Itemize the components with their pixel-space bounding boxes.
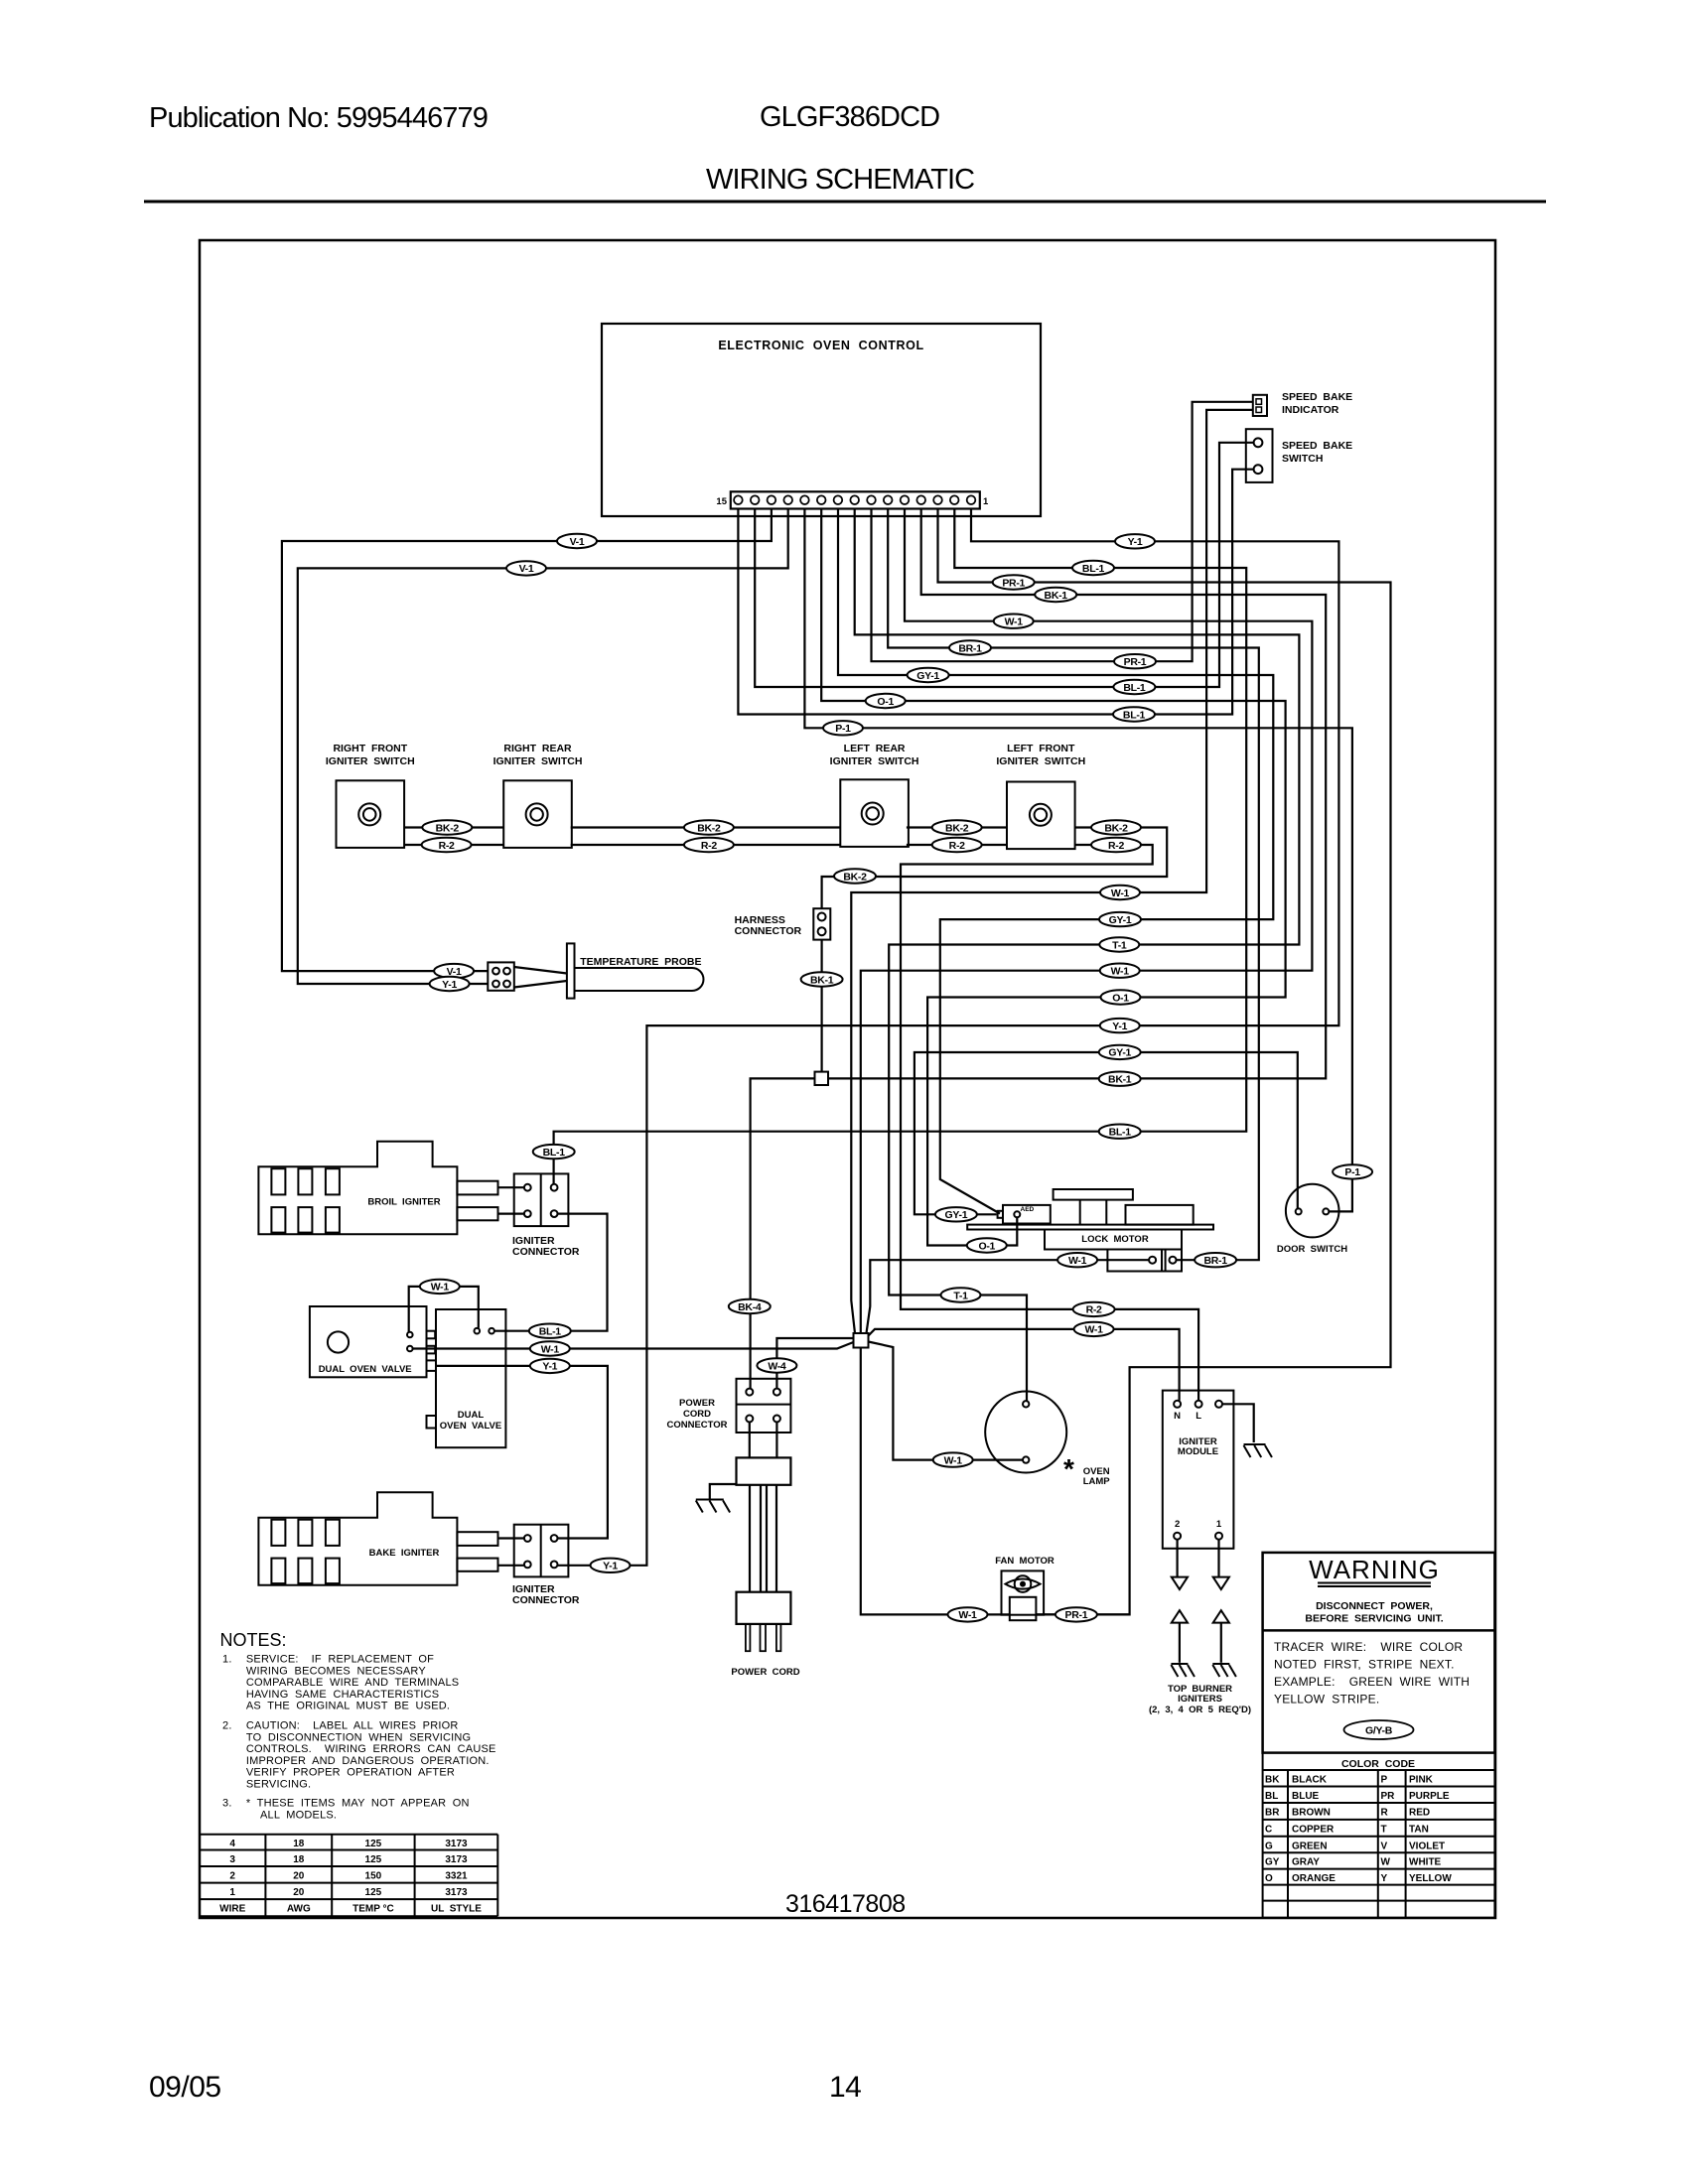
page frame border [200, 240, 1495, 1918]
svg-text:WHITE: WHITE [1409, 1857, 1442, 1868]
svg-text:BK-2: BK-2 [843, 871, 867, 883]
svg-text:DUAL OVEN VALVE: DUAL OVEN VALVE [319, 1364, 412, 1375]
svg-text:VIOLET: VIOLET [1409, 1841, 1445, 1851]
svg-text:CONNECTOR: CONNECTOR [735, 925, 802, 937]
wire PR-1 pin3 to fan motor [938, 509, 1391, 1615]
svg-text:YELLOW: YELLOW [1409, 1873, 1452, 1884]
electrode arrow up [1213, 1610, 1229, 1622]
bake igniter connector [514, 1525, 569, 1577]
svg-text:W-1: W-1 [1111, 966, 1130, 978]
svg-text:125: 125 [365, 1887, 382, 1898]
wire power cord conductor 2 [760, 1485, 762, 1592]
svg-text:BK-4: BK-4 [738, 1301, 762, 1313]
speed bake switch [1246, 429, 1273, 482]
svg-text:LEFT REAR: LEFT REAR [844, 743, 906, 754]
svg-text:150: 150 [365, 1871, 382, 1882]
svg-text:W-1: W-1 [1005, 616, 1024, 628]
wire igniter module pin3 to ground [1222, 1404, 1254, 1442]
svg-text:BK-2: BK-2 [436, 822, 460, 834]
svg-text:SWITCH: SWITCH [1282, 453, 1323, 465]
svg-text:BR-1: BR-1 [1203, 1255, 1227, 1267]
svg-text:COLOR CODE: COLOR CODE [1341, 1758, 1415, 1770]
svg-text:AWG: AWG [287, 1904, 311, 1915]
wire label BK-2 [684, 820, 734, 834]
wire label Y-1 [1115, 534, 1155, 548]
svg-text:W-4: W-4 [768, 1360, 786, 1372]
wire W-1 node to fan motor [861, 1348, 1010, 1615]
svg-text:Y-1: Y-1 [1128, 536, 1143, 548]
svg-text:P-1: P-1 [835, 723, 851, 735]
svg-text:T-1: T-1 [1112, 939, 1127, 951]
svg-text:MODULE: MODULE [1178, 1446, 1218, 1457]
wire label V-1 [557, 534, 597, 548]
svg-text:R-2: R-2 [949, 840, 965, 852]
igniter module [1163, 1391, 1234, 1549]
dual oven valve right unit [427, 1309, 506, 1447]
svg-text:R-2: R-2 [701, 840, 717, 852]
svg-text:1: 1 [1216, 1519, 1222, 1530]
wire O-1 pin10 to lock motor [821, 509, 1285, 1246]
svg-text:NOTED FIRST, STRIPE NEXT.: NOTED FIRST, STRIPE NEXT. [1274, 1658, 1455, 1672]
svg-text:Y-1: Y-1 [1112, 1021, 1127, 1032]
wire power cord connector right lead [775, 1423, 777, 1458]
wire label BK-1 [801, 972, 843, 986]
svg-text:BLACK: BLACK [1292, 1775, 1328, 1786]
svg-text:3321: 3321 [445, 1871, 468, 1882]
svg-text:GY-1: GY-1 [945, 1209, 968, 1221]
svg-text:EXAMPLE: GREEN WIRE WITH: EXAMPLE: GREEN WIRE WITH [1274, 1675, 1470, 1689]
svg-text:LEFT FRONT: LEFT FRONT [1007, 743, 1075, 754]
svg-text:DOOR SWITCH: DOOR SWITCH [1277, 1244, 1347, 1255]
svg-text:NOTES:: NOTES: [220, 1630, 287, 1650]
svg-text:IMPROPER AND DANGEROUS OPER: IMPROPER AND DANGEROUS OPERATION. [246, 1755, 490, 1767]
wire label W-1 [1100, 886, 1140, 899]
wire label PR-1 [993, 575, 1035, 589]
wire label T-1 [941, 1288, 981, 1301]
wire label GY-1 [1099, 912, 1141, 926]
svg-text:3173: 3173 [445, 1839, 468, 1849]
wire label V-1 [506, 561, 546, 575]
wire label W-1 [1074, 1322, 1114, 1336]
svg-text:SPEED BAKE: SPEED BAKE [1282, 391, 1352, 403]
svg-text:OVEN VALVE: OVEN VALVE [440, 1421, 501, 1432]
ground power cord [696, 1500, 730, 1513]
door switch [1286, 1184, 1339, 1238]
dual oven valve left unit [310, 1306, 435, 1377]
svg-text:18: 18 [293, 1854, 305, 1865]
wire GY-1 pin9 to lock motor [838, 509, 1273, 1214]
svg-text:WIRING SCHEMATIC: WIRING SCHEMATIC [706, 164, 974, 196]
svg-text:TAN: TAN [1409, 1824, 1429, 1835]
svg-text:W-1: W-1 [431, 1282, 450, 1294]
svg-text:BK-1: BK-1 [1045, 590, 1068, 602]
svg-text:3173: 3173 [445, 1887, 468, 1898]
svg-text:GY-1: GY-1 [1109, 914, 1132, 926]
wire power cord ground lead [710, 1484, 737, 1499]
wire label PR-1 [1055, 1607, 1097, 1621]
color code header band sides [1262, 1753, 1264, 1770]
wire label W-1 [1057, 1253, 1097, 1267]
electrode arrow up [1172, 1610, 1188, 1622]
svg-text:PR-1: PR-1 [1002, 577, 1025, 589]
svg-text:3.: 3. [222, 1798, 232, 1810]
wire bake igniter to connector top [498, 1537, 525, 1539]
wire PR-1 fan motor [1036, 1613, 1129, 1615]
svg-text:POWER: POWER [679, 1398, 715, 1409]
wire R-2 left rear to left front [907, 844, 1007, 846]
svg-text:20: 20 [293, 1887, 305, 1898]
wire label GY-1 [908, 668, 949, 682]
wire BL-1 pin14 to speed bake switch [755, 443, 1253, 687]
svg-text:20: 20 [293, 1871, 305, 1882]
wire label W-1 [933, 1452, 973, 1466]
svg-text:BR-1: BR-1 [958, 642, 982, 654]
wire label O-1 [967, 1238, 1007, 1252]
svg-text:BL-1: BL-1 [1082, 563, 1105, 575]
svg-text:W-1: W-1 [1068, 1255, 1087, 1267]
svg-text:W-1: W-1 [958, 1609, 977, 1621]
wire W-1 node to igniter module N [869, 1329, 1180, 1401]
wire igniter module pin2 electrode [1176, 1540, 1178, 1577]
svg-text:GY-1: GY-1 [916, 670, 939, 682]
node W-1 splice [854, 1333, 869, 1348]
svg-text:POWER CORD: POWER CORD [731, 1667, 799, 1678]
svg-text:BL-1: BL-1 [1123, 682, 1146, 694]
wire W-4 power cord connector to node [776, 1338, 853, 1389]
wire top burner igniter lead 1 [1220, 1623, 1222, 1663]
wire label W-4 [757, 1358, 796, 1372]
wire BK-1 harness connector to junction [820, 940, 822, 1072]
wire P-1 pin11 to door switch [804, 509, 1352, 1212]
svg-text:2: 2 [229, 1871, 235, 1882]
wire V-1 pin13 to temperature probe [282, 509, 772, 972]
svg-text:IGNITERS: IGNITERS [1178, 1694, 1222, 1705]
svg-text:125: 125 [365, 1854, 382, 1865]
wire label BL-1 [533, 1145, 575, 1159]
electronic oven control box [602, 324, 1041, 516]
wire label GY-1 [935, 1207, 977, 1221]
svg-text:BK: BK [1265, 1775, 1280, 1786]
temperature probe connector [488, 962, 514, 990]
svg-text:BROWN: BROWN [1292, 1808, 1331, 1819]
svg-text:PINK: PINK [1409, 1775, 1434, 1786]
svg-text:LOCK MOTOR: LOCK MOTOR [1081, 1234, 1149, 1245]
wire BK-1 pin4 to junction [828, 509, 1326, 1079]
wire W-1 dual oven valve link [409, 1287, 479, 1332]
svg-text:IGNITER SWITCH: IGNITER SWITCH [493, 755, 583, 767]
wire label PR-1 [1114, 654, 1156, 668]
wire Y-1 dual oven valve to bake connector [435, 1366, 608, 1539]
wire label GY-1 [1099, 1045, 1141, 1059]
svg-text:COPPER: COPPER [1292, 1824, 1335, 1835]
fan motor [1002, 1570, 1045, 1620]
wire W-1 node to oven lamp bottom [869, 1342, 1024, 1460]
svg-text:O-1: O-1 [978, 1240, 995, 1252]
svg-text:G: G [1265, 1841, 1273, 1851]
temperature probe body [567, 943, 704, 998]
wire V-1 pin12 to temperature probe [298, 509, 788, 985]
wire label BK-1 [1099, 1072, 1141, 1086]
wire label W-1 [994, 614, 1034, 628]
svg-text:BK-2: BK-2 [1104, 822, 1128, 834]
junction square BK-1/BK-4 [815, 1072, 829, 1085]
svg-text:BL-1: BL-1 [1109, 1127, 1132, 1139]
svg-text:GY-1: GY-1 [1108, 1047, 1131, 1059]
lock motor assembly [967, 1189, 1213, 1272]
svg-text:TO DISCONNECTION WHEN SERVI: TO DISCONNECTION WHEN SERVICING [246, 1731, 471, 1743]
svg-text:CONNECTOR: CONNECTOR [666, 1420, 727, 1431]
svg-text:VERIFY PROPER OPERATION AFT: VERIFY PROPER OPERATION AFTER [246, 1767, 455, 1779]
svg-text:*: * [1063, 1453, 1074, 1484]
left front igniter switch [1007, 782, 1075, 850]
svg-text:Y: Y [1381, 1873, 1388, 1884]
left rear igniter switch [840, 779, 909, 847]
ground top burner igniter 1 [1212, 1664, 1236, 1677]
svg-text:R-2: R-2 [1086, 1304, 1102, 1316]
ground top burner igniter 2 [1171, 1664, 1195, 1677]
svg-text:PR: PR [1381, 1791, 1396, 1802]
electrode arrow down [1172, 1577, 1188, 1589]
svg-text:TEMPERATURE PROBE: TEMPERATURE PROBE [580, 956, 701, 968]
svg-text:BL-1: BL-1 [1123, 709, 1146, 721]
svg-text:R: R [1381, 1808, 1389, 1819]
wire label W-1 [420, 1280, 460, 1294]
wire label W-1 [1100, 964, 1140, 978]
svg-text:V-1: V-1 [570, 536, 585, 548]
svg-text:PR-1: PR-1 [1124, 656, 1147, 668]
svg-text:IGNITER SWITCH: IGNITER SWITCH [830, 755, 919, 767]
ground igniter module [1244, 1444, 1272, 1457]
svg-text:ALL MODELS.: ALL MODELS. [260, 1809, 337, 1821]
wire label R-2 [1091, 838, 1141, 852]
svg-text:W-1: W-1 [541, 1343, 560, 1355]
oven lamp [985, 1392, 1066, 1473]
svg-text:BAKE IGNITER: BAKE IGNITER [369, 1548, 440, 1559]
electrode arrow down [1213, 1577, 1229, 1589]
svg-text:BL-1: BL-1 [539, 1326, 562, 1338]
power cord body [737, 1457, 791, 1484]
right rear igniter switch [503, 780, 572, 848]
wire label BL-1 [1099, 1125, 1141, 1139]
wire gauge table [200, 1835, 497, 1917]
wire top burner igniter lead 2 [1179, 1623, 1181, 1663]
svg-text:N: N [1174, 1411, 1181, 1422]
wire BK-2 right front to right rear [404, 826, 503, 828]
svg-text:CAUTION: LABEL ALL WIRES: CAUTION: LABEL ALL WIRES PRIOR [246, 1720, 459, 1732]
wire label Y-1 [1100, 1019, 1140, 1032]
color code table [1263, 1770, 1495, 1918]
wire BK-2 right rear to left rear [571, 826, 841, 828]
wire Y-1 pin1 to bake igniter [557, 509, 1338, 1566]
svg-text:WARNING: WARNING [1309, 1555, 1440, 1584]
svg-text:R-2: R-2 [1108, 840, 1124, 852]
svg-text:(2, 3, 4 OR 5 REQ'D): (2, 3, 4 OR 5 REQ'D) [1149, 1705, 1251, 1715]
wire label BL-1 [1113, 680, 1155, 694]
svg-text:3173: 3173 [445, 1854, 468, 1865]
svg-text:O-1: O-1 [1112, 992, 1129, 1004]
svg-text:DISCONNECT POWER,: DISCONNECT POWER, [1316, 1600, 1433, 1612]
wire GY-1 door switch to lock motor [914, 1052, 1298, 1214]
svg-text:Y-1: Y-1 [442, 979, 457, 991]
svg-text:BK-1: BK-1 [1108, 1074, 1132, 1086]
wire BL-1 broil connector to dual oven valve [494, 1214, 607, 1331]
svg-text:W-1: W-1 [1085, 1324, 1104, 1336]
broil igniter connector [514, 1173, 569, 1226]
wire label W-1 [948, 1607, 988, 1621]
svg-text:ELECTRONIC OVEN CONTROL: ELECTRONIC OVEN CONTROL [718, 339, 923, 352]
svg-text:INDICATOR: INDICATOR [1282, 404, 1339, 416]
svg-text:BROIL IGNITER: BROIL IGNITER [367, 1197, 440, 1208]
wire T-1 pin8 to oven lamp top [855, 509, 1300, 1402]
wire label BR-1 [1195, 1253, 1236, 1267]
svg-text:BL-1: BL-1 [543, 1147, 566, 1159]
svg-text:PURPLE: PURPLE [1409, 1791, 1450, 1802]
wire label R-2 [1073, 1302, 1115, 1316]
wire label BK-4 [729, 1299, 771, 1313]
svg-text:18: 18 [293, 1839, 305, 1849]
wire label V-1 [434, 964, 474, 978]
svg-text:BEFORE SERVICING UNIT.: BEFORE SERVICING UNIT. [1305, 1613, 1443, 1625]
wire label Y-1 [430, 977, 470, 991]
svg-text:V: V [1381, 1841, 1388, 1851]
wire probe connector taper top [514, 967, 567, 974]
wire PR-1 pin7 to speed bake indicator [872, 402, 1253, 661]
wire label BL-1 [1072, 561, 1114, 575]
svg-text:LAMP: LAMP [1083, 1476, 1111, 1487]
svg-text:Publication No: 5995446779: Publication No: 5995446779 [149, 102, 488, 134]
wire label R-2 [422, 838, 472, 852]
svg-text:14: 14 [829, 2071, 861, 2104]
wire igniter module pin1 electrode [1217, 1540, 1219, 1577]
svg-text:SERVICING.: SERVICING. [246, 1779, 311, 1791]
svg-text:GLGF386DCD: GLGF386DCD [760, 101, 939, 133]
svg-text:YELLOW STRIPE.: YELLOW STRIPE. [1274, 1693, 1379, 1706]
wire W-1 pin5 to node [861, 509, 1313, 1334]
wire label O-1 [866, 694, 906, 708]
wire label R-2 [684, 838, 734, 852]
wire W-1 node to speed bake indicator [851, 410, 1253, 1333]
svg-text:SPEED BAKE: SPEED BAKE [1282, 440, 1352, 452]
wire label BL-1 [1113, 707, 1155, 721]
wire label BK-2 [932, 820, 982, 834]
svg-text:Y-1: Y-1 [542, 1361, 557, 1373]
wire label W-1 [530, 1341, 570, 1355]
svg-text:W-1: W-1 [944, 1454, 963, 1466]
wire label BK-1 [1035, 588, 1076, 602]
svg-text:ORANGE: ORANGE [1292, 1873, 1336, 1884]
svg-text:W: W [1381, 1857, 1391, 1868]
svg-text:Y-1: Y-1 [603, 1561, 618, 1572]
svg-text:CONTROLS. WIRING ERRORS C: CONTROLS. WIRING ERRORS CAN CAUSE [246, 1743, 496, 1755]
title underline [144, 201, 1546, 204]
svg-text:09/05: 09/05 [149, 2071, 221, 2104]
wire label BL-1 [529, 1324, 571, 1338]
wire BR-1 pin6 to lock motor connector [888, 509, 1259, 1261]
wire label BK-2 [422, 820, 472, 834]
wire label T-1 [1099, 937, 1139, 951]
wire label BK-2 [1091, 820, 1141, 834]
svg-text:125: 125 [365, 1839, 382, 1849]
svg-text:BK-2: BK-2 [697, 822, 721, 834]
svg-text:GY: GY [1265, 1857, 1280, 1868]
right front igniter switch [337, 780, 405, 848]
broil igniter [258, 1142, 497, 1235]
svg-text:AED: AED [1021, 1206, 1035, 1213]
wire W-1 lock motor connector to node [867, 1260, 1150, 1333]
svg-text:O-1: O-1 [877, 696, 894, 708]
wire label P-1 [1333, 1164, 1372, 1178]
svg-text:316417808: 316417808 [785, 1890, 906, 1918]
wire R-2 right front to right rear [404, 844, 503, 846]
wire R-2 left front to igniter module L [901, 845, 1198, 1401]
svg-text:W-1: W-1 [1111, 887, 1130, 899]
wire label Y-1 [530, 1359, 570, 1373]
svg-text:T: T [1381, 1824, 1387, 1835]
wire label P-1 [823, 721, 863, 735]
svg-text:RED: RED [1409, 1808, 1430, 1819]
svg-text:1: 1 [229, 1887, 235, 1898]
wire label Y-1 [591, 1559, 631, 1572]
svg-text:15: 15 [716, 496, 727, 507]
svg-text:FAN MOTOR: FAN MOTOR [995, 1556, 1055, 1567]
wire BK-2 left front to harness connector [822, 828, 1168, 909]
svg-text:4: 4 [229, 1839, 235, 1849]
svg-text:1: 1 [983, 496, 989, 507]
svg-text:C: C [1265, 1824, 1272, 1835]
wire BL-1 pin15 to speed bake switch [738, 470, 1253, 715]
wire W-1 node to dual oven valve [412, 1342, 853, 1349]
wire power cord conductor 3 [766, 1485, 768, 1592]
svg-text:SERVICE: IF REPLACEMENT O: SERVICE: IF REPLACEMENT OF [246, 1654, 434, 1666]
svg-text:2.: 2. [222, 1720, 232, 1732]
svg-text:G/Y-B: G/Y-B [1365, 1725, 1393, 1737]
wire label R-2 [932, 838, 982, 852]
wire bake igniter to connector bottom [498, 1565, 525, 1567]
svg-text:RIGHT REAR: RIGHT REAR [503, 743, 572, 754]
wire BK-4 junction to power cord connector [751, 1078, 815, 1388]
svg-text:CONNECTOR: CONNECTOR [512, 1246, 580, 1258]
svg-text:DUAL: DUAL [458, 1410, 485, 1421]
EOC connector pins 15..1 [734, 495, 975, 504]
svg-text:COMPARABLE WIRE AND TERMINA: COMPARABLE WIRE AND TERMINALS [246, 1677, 459, 1689]
warning box [1263, 1553, 1495, 1753]
wire label BK-2 [834, 869, 876, 883]
svg-text:HAVING SAME CHARACTERISTICS: HAVING SAME CHARACTERISTICS [246, 1689, 439, 1701]
wire broil igniter to connector top [498, 1186, 525, 1188]
svg-text:RIGHT FRONT: RIGHT FRONT [333, 743, 407, 754]
svg-text:BK-1: BK-1 [810, 974, 834, 986]
power cord plug [737, 1592, 791, 1652]
svg-text:IGNITER SWITCH: IGNITER SWITCH [996, 755, 1085, 767]
wire label BR-1 [949, 640, 991, 654]
bake igniter [258, 1492, 497, 1585]
svg-text:P: P [1381, 1775, 1388, 1786]
speed bake indicator [1253, 395, 1267, 416]
svg-text:GRAY: GRAY [1292, 1857, 1320, 1868]
svg-text:AS THE ORIGINAL MUST BE U: AS THE ORIGINAL MUST BE USED. [246, 1701, 450, 1712]
wire power cord connector left lead [749, 1423, 751, 1458]
svg-text:P-1: P-1 [1344, 1166, 1360, 1178]
wire R-2 right rear to left rear [571, 844, 841, 846]
wire label O-1 [1101, 990, 1141, 1004]
svg-text:BLUE: BLUE [1292, 1791, 1320, 1802]
svg-text:V-1: V-1 [519, 563, 534, 575]
wire power cord conductor 4 [775, 1485, 777, 1592]
svg-text:R-2: R-2 [439, 840, 455, 852]
wire power cord conductor 1 [749, 1485, 751, 1592]
svg-text:BR: BR [1265, 1808, 1280, 1819]
svg-text:BL: BL [1265, 1791, 1278, 1802]
